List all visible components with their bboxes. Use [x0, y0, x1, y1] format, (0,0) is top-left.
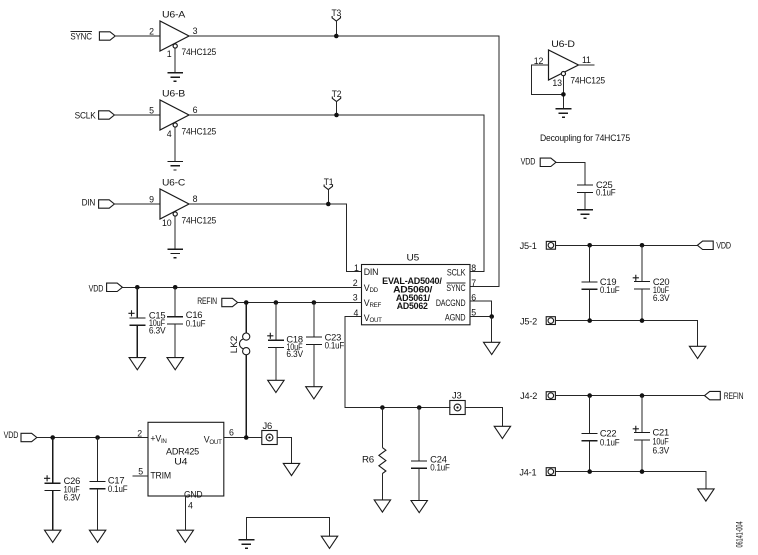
wire C19 lower [589, 289, 591, 320]
svg-text:GND: GND [184, 489, 203, 499]
wire DIN input [114, 203, 160, 205]
node REFIN C23 junction [312, 300, 317, 305]
wire C19 upper [589, 245, 591, 282]
svg-text:10: 10 [162, 218, 172, 228]
node R6 junction [380, 405, 385, 410]
node REFIN C18 junction [274, 300, 279, 305]
svg-text:SCLK: SCLK [447, 267, 466, 277]
svg-text:0.1uF: 0.1uF [108, 484, 128, 494]
wire U6-D input loop [532, 65, 564, 94]
node U4 VOUT junction [244, 435, 249, 440]
wire LK2 upper [245, 303, 247, 334]
node VDD C17 junction [95, 435, 100, 440]
buffer U6-D [534, 39, 605, 88]
wire LK2 lower to VOUT row [245, 355, 247, 438]
connector J6 [262, 421, 277, 444]
input flag DIN [82, 197, 115, 208]
ground U6-D [556, 109, 572, 118]
wire U6-A output row [189, 36, 499, 286]
wire SCLK input [114, 114, 160, 116]
node J5-1 C19 junction [587, 243, 592, 248]
svg-text:74HC125: 74HC125 [182, 47, 217, 57]
wire U5 VOUT net [345, 317, 450, 408]
svg-text:AD5062: AD5062 [397, 301, 428, 311]
svg-text:J5-2: J5-2 [520, 316, 537, 326]
svg-text:TRIM: TRIM [150, 471, 171, 481]
svg-text:VDD: VDD [521, 156, 536, 166]
ground J5-2 [689, 346, 705, 358]
wire J4-1 row to ground [556, 472, 706, 489]
svg-text:2: 2 [353, 278, 358, 288]
svg-text:0.1uF: 0.1uF [596, 188, 616, 198]
wire VDD to C25 [556, 162, 585, 185]
ground U6-B [167, 161, 183, 170]
buffer U6-A [149, 9, 216, 59]
wire R6 upper [381, 408, 383, 448]
wire U5 DACGND pin 6 [470, 301, 492, 317]
svg-text:6: 6 [229, 427, 234, 437]
connector J4-2 [520, 391, 555, 401]
wire C24 upper [418, 408, 420, 462]
svg-text:SYNC: SYNC [446, 283, 466, 293]
node J4-1 C21 junction [640, 469, 645, 474]
wire C24 lower [418, 468, 420, 500]
svg-text:J5-1: J5-1 [520, 241, 537, 251]
input flag VDD (U4) [4, 430, 37, 441]
svg-text:0.1uF: 0.1uF [186, 318, 206, 328]
wire C23 lower [313, 344, 315, 386]
svg-text:8: 8 [193, 194, 198, 204]
wire C18 upper [275, 303, 277, 341]
svg-text:2: 2 [149, 26, 154, 36]
node J5-2 C20 junction [640, 318, 645, 323]
svg-text:6: 6 [193, 105, 198, 115]
ground C24 [411, 501, 427, 513]
wire C16 lower [174, 324, 176, 357]
capacitor C20 10uF [633, 275, 670, 303]
wire VDD row to U4 pin 2 [37, 437, 148, 439]
node VDD C15 junction [135, 285, 140, 290]
wire C26 lower [52, 491, 54, 531]
capacitor C21 10uF [633, 426, 670, 456]
svg-text:R6: R6 [362, 454, 374, 464]
svg-text:J4-2: J4-2 [520, 391, 537, 401]
svg-text:REFIN: REFIN [197, 296, 217, 306]
input flag SCLK [75, 110, 115, 120]
svg-text:0.1uF: 0.1uF [325, 341, 345, 351]
wire U6-A enable to ground [174, 48, 176, 72]
wire U6-C enable to ground [174, 216, 176, 249]
node REFIN LK2 junction [244, 300, 249, 305]
svg-text:74HC125: 74HC125 [182, 215, 217, 225]
svg-text:5: 5 [149, 105, 154, 115]
svg-text:REFIN: REFIN [724, 391, 744, 401]
wire U6-C output to U5 DIN [189, 204, 362, 272]
wire U6-D enable down [562, 76, 564, 109]
node VDD C16 junction [173, 285, 178, 290]
ground U6-A [167, 73, 183, 82]
svg-text:AGND: AGND [445, 312, 466, 322]
svg-text:J6: J6 [263, 421, 273, 431]
svg-text:U6-C: U6-C [162, 177, 186, 187]
svg-text:Decoupling for 74HC175: Decoupling for 74HC175 [540, 133, 630, 143]
wire U6-B output row [189, 115, 484, 272]
node AGND junction [489, 314, 494, 319]
input flag SYNC [70, 31, 115, 41]
capacitor C25 0.1uF [577, 180, 616, 198]
wire U4 TRIM stub [132, 475, 148, 477]
ground U5 AGND [484, 342, 500, 354]
wire C21 upper [641, 396, 643, 433]
ground R6 [374, 500, 390, 512]
svg-text:8: 8 [471, 263, 476, 273]
test point T1 [324, 177, 334, 204]
capacitor C18 10uF [267, 333, 303, 360]
test point T3 [332, 8, 342, 36]
svg-text:6.3V: 6.3V [149, 326, 166, 336]
svg-text:06141-004: 06141-004 [734, 521, 744, 547]
wire C21 lower [641, 440, 643, 472]
svg-text:4: 4 [188, 500, 193, 510]
svg-text:0.1uF: 0.1uF [600, 437, 620, 447]
wire U6-D output stub [579, 64, 595, 66]
svg-text:2: 2 [137, 428, 142, 438]
capacitor C24 0.1uF [411, 455, 450, 473]
DAC U5 EVAL-AD5040 [353, 253, 476, 325]
ground star DGND [239, 540, 255, 549]
wire J5-1 row [556, 244, 698, 246]
capacitor C26 10uF [44, 475, 80, 502]
input flag VDD (C25) [521, 156, 556, 166]
node J5-1 C20 junction [640, 243, 645, 248]
ground U4 [177, 530, 193, 542]
connector J5-1 [520, 241, 556, 251]
svg-text:U6-A: U6-A [162, 9, 185, 19]
ground C17 [89, 530, 105, 542]
wire C20 upper [641, 245, 643, 281]
wire REFIN row to U5 pin 3 [238, 302, 362, 304]
svg-text:VDD: VDD [716, 241, 731, 251]
ground C16 [167, 358, 183, 370]
wire C26 upper [52, 438, 54, 484]
ground J4-1 [698, 489, 714, 501]
svg-text:3: 3 [193, 26, 198, 36]
svg-text:SCLK: SCLK [75, 110, 96, 120]
connector J3 [450, 391, 465, 415]
wire C22 lower [589, 441, 591, 472]
wire C15 lower [136, 325, 138, 357]
wire C15 upper [136, 287, 138, 318]
wire C20 lower [641, 289, 643, 321]
output flag REFIN (J4) [705, 391, 744, 401]
svg-text:U6-D: U6-D [551, 39, 575, 49]
voltage reference U4 ADR425 [137, 422, 234, 510]
node T2 junction [334, 113, 339, 118]
svg-text:0.1uF: 0.1uF [430, 463, 450, 473]
wire C18 lower [275, 348, 277, 381]
node J4-2 C21 junction [640, 393, 645, 398]
wire J6 to ground [277, 438, 291, 464]
svg-text:6.3V: 6.3V [286, 349, 303, 359]
ground C26 [45, 530, 61, 542]
svg-text:J4-1: J4-1 [519, 468, 536, 478]
svg-text:VDD: VDD [89, 283, 104, 293]
wire J3 to ground [465, 408, 502, 427]
node J5-2 C19 junction [587, 318, 592, 323]
node U6-D junction [561, 92, 566, 97]
wire VDD row to U5 pin 2 [122, 286, 361, 288]
svg-text:3: 3 [353, 293, 358, 303]
node T3 junction [334, 34, 339, 39]
svg-text:6.3V: 6.3V [653, 293, 670, 303]
wire U4 GND pin 4 [184, 496, 186, 530]
svg-text:0.1uF: 0.1uF [600, 285, 620, 295]
svg-text:74HC125: 74HC125 [570, 75, 605, 85]
wire C17 upper [97, 438, 99, 482]
node J4-1 C22 junction [587, 469, 592, 474]
svg-text:T2: T2 [332, 89, 342, 99]
input flag VDD (U5) [89, 283, 123, 293]
svg-text:1: 1 [167, 49, 172, 59]
buffer U6-C [149, 177, 216, 228]
capacitor C16 0.1uF [167, 310, 206, 328]
wire C16 upper [174, 287, 176, 316]
svg-text:5: 5 [138, 466, 143, 476]
connector J5-2 [520, 316, 555, 326]
wire R6 lower [381, 474, 383, 500]
svg-text:DACGND: DACGND [436, 298, 466, 308]
wire U6-B enable to ground [174, 127, 176, 161]
svg-text:SYNC: SYNC [70, 31, 92, 41]
svg-text:7: 7 [471, 278, 476, 288]
capacitor C17 0.1uF [90, 476, 129, 494]
wire U4 VOUT to J6 [224, 437, 262, 439]
svg-text:1: 1 [354, 263, 359, 273]
svg-text:74HC125: 74HC125 [182, 126, 217, 136]
wire U5 AGND pin 5 [470, 316, 492, 318]
node C24 junction [417, 405, 422, 410]
svg-text:DIN: DIN [82, 197, 96, 207]
wire star ground link [246, 517, 329, 539]
ground C23 [306, 387, 322, 399]
svg-text:9: 9 [149, 194, 154, 204]
node VDD C26 junction [50, 435, 55, 440]
svg-text:U5: U5 [407, 253, 420, 263]
input flag REFIN [197, 296, 237, 307]
svg-text:VDD: VDD [4, 430, 19, 440]
capacitor C15 10uF [128, 310, 165, 335]
svg-text:13: 13 [552, 78, 562, 88]
capacitor C22 0.1uF [582, 428, 620, 447]
svg-text:LK2: LK2 [229, 336, 239, 354]
wire SYNC input [115, 35, 160, 37]
wire C25 to ground [584, 192, 586, 209]
svg-text:J3: J3 [452, 391, 462, 401]
resistor R6 [362, 448, 386, 474]
wire C22 upper [589, 396, 591, 434]
svg-text:T3: T3 [332, 8, 342, 18]
ground C18 [268, 380, 284, 392]
svg-text:U4: U4 [174, 456, 187, 466]
buffer U6-B [149, 88, 216, 139]
ground J3 [494, 426, 510, 438]
svg-text:ADR425: ADR425 [166, 446, 199, 456]
svg-text:6.3V: 6.3V [653, 445, 670, 455]
ground U6-C [167, 249, 183, 258]
svg-text:11: 11 [582, 55, 591, 65]
ground C25 [577, 210, 593, 219]
capacitor C23 0.1uF [306, 333, 345, 351]
test point T2 [332, 89, 342, 115]
link LK2 [229, 333, 250, 355]
ground C15 [129, 358, 145, 370]
svg-text:4: 4 [167, 129, 172, 139]
wire J5-2 row to ground [556, 321, 698, 347]
output flag VDD (J5) [697, 241, 730, 251]
node T1 junction [326, 202, 331, 207]
wire C17 lower [97, 489, 99, 530]
node J4-2 C22 junction [587, 393, 592, 398]
capacitor C19 0.1uF [582, 277, 620, 295]
wire AGND to ground [491, 317, 493, 343]
connector J4-1 [519, 468, 555, 478]
svg-text:6.3V: 6.3V [64, 492, 81, 502]
svg-text:DIN: DIN [364, 267, 379, 277]
svg-text:U6-B: U6-B [162, 88, 185, 98]
wire J4-2 row [556, 395, 705, 397]
wire C23 upper [313, 303, 315, 338]
ground star AGND [321, 536, 337, 548]
ground J6 [283, 463, 299, 475]
